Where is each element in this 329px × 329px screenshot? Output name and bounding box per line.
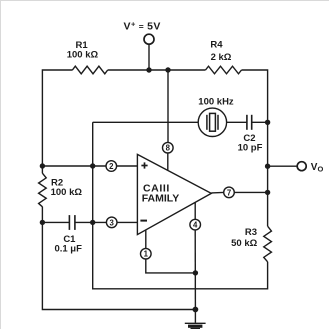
wire inverting feedback rail x=92.7 [93,122,268,288]
svg-text:2: 2 [109,162,114,171]
resistor R4 [206,66,242,74]
wire pin1 down and right [146,259,196,273]
crystal Y1 100 kHz [198,108,226,136]
svg-text:FAMILY: FAMILY [142,193,180,205]
svg-text:50 kΩ: 50 kΩ [231,238,257,249]
pin 7 [224,187,235,198]
wire pin7 to right rail [234,191,267,193]
node pin1 pin4 junction [193,270,198,275]
wire crystal to C2 [227,121,247,123]
terminal V+ [144,34,154,44]
resistor R1 [72,66,107,74]
svg-text:1: 1 [144,250,149,259]
wire pin2 line [42,165,106,167]
node pin7 junction [265,190,270,195]
svg-text:4: 4 [193,221,198,230]
svg-text:R3: R3 [245,227,257,238]
resistor R3 [264,226,272,262]
op-amp U1 CA111 triangle [137,154,211,234]
wire crystal line left [93,121,199,123]
label minus input [140,220,147,222]
svg-text:V+ = 5V: V+ = 5V [124,19,161,32]
wire pin1 stem up [145,230,147,248]
svg-text:7: 7 [227,188,231,197]
svg-text:2 kΩ: 2 kΩ [211,52,232,63]
svg-text:3: 3 [110,218,115,227]
node ground junction [193,307,199,313]
pin 8 [163,142,174,153]
label plus input [141,162,147,168]
wire pin4 down to ground rail [194,230,196,310]
wire C1 lead left [42,221,69,223]
capacitor C2 [247,115,252,130]
wire ground stem [194,310,196,323]
wire pin2 to triangle [117,165,138,167]
node V+ junction [146,67,151,72]
svg-text:100 kHz: 100 kHz [198,97,234,108]
wire pin3 to triangle [117,221,137,223]
node pin8 branch junction [165,67,170,72]
node C1 left junction [40,220,45,225]
node pin2 mid junction [90,163,95,168]
node C2 right rail junction [265,120,270,125]
wire top rail segment left (V+ rail) [42,70,72,166]
pin 1 [141,248,152,259]
resistor R2 [39,173,47,207]
svg-text:100 kΩ: 100 kΩ [51,187,83,198]
wire right rail C2 to R3 [267,122,269,226]
svg-text:VO: VO [311,162,324,174]
wire apex to pin7 [211,191,223,194]
terminal Vo [297,162,306,171]
wire Vo lead [268,165,298,167]
pin 2 [106,161,117,172]
svg-text:100 kΩ: 100 kΩ [67,50,99,61]
node C1 pin3 junction [90,220,95,225]
svg-text:8: 8 [166,144,171,153]
wire V+ stem [148,44,150,70]
wire C2 to right rail [252,121,268,123]
svg-text:10 pF: 10 pF [238,143,263,154]
wire C1 lead right [75,221,107,223]
node Vo junction [265,164,270,169]
ground [185,323,206,328]
wire top rail middle [108,69,206,71]
wire pin8 vertical [167,70,169,142]
svg-text:R4: R4 [210,40,223,51]
pin 3 [106,217,117,228]
wire top rail right corner down to C2 node [242,70,268,122]
capacitor C1 [69,215,75,230]
node pin2 left-rail junction [40,163,45,168]
wire left rail lower (R2 rail) [41,166,43,173]
wire left rail to bottom [42,207,195,310]
svg-text:0.1 μF: 0.1 μF [54,243,82,254]
wire pin4 stem up [194,202,196,219]
pin 4 [190,219,201,230]
wire pin8 stem to triangle [167,153,169,171]
